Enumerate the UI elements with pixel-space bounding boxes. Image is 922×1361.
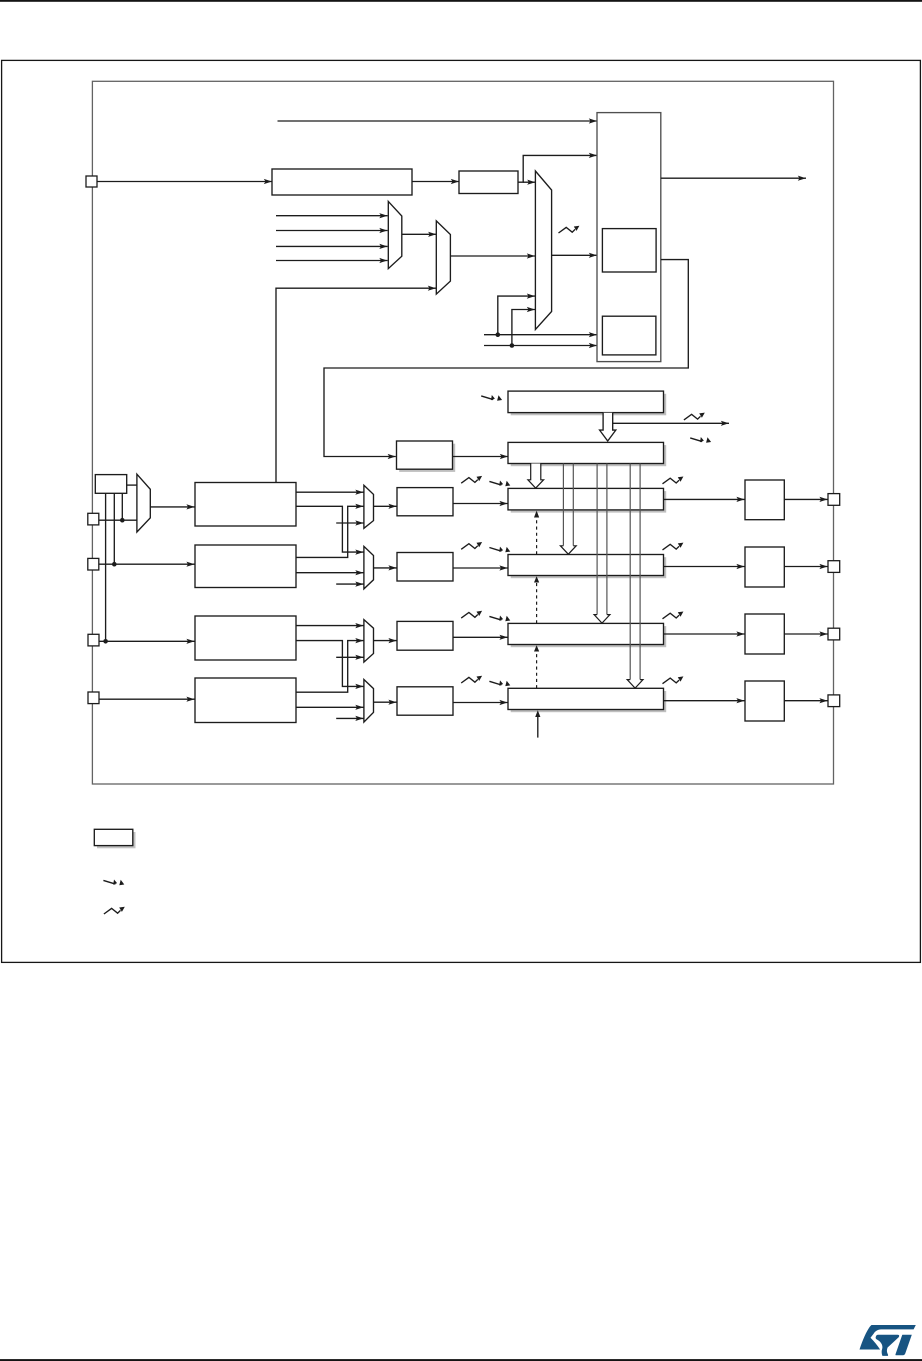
event symbol: update event UEV — [684, 413, 705, 420]
pin TIMx_CH2 output (right border) — [828, 561, 840, 573]
block ICPS2: input capture 2 prescaler — [397, 553, 453, 582]
wire TRGO output — [661, 177, 806, 179]
wire TRC to IC3 mux — [336, 656, 363, 658]
interrupt/DMA symbol: CC3 interrupt — [489, 616, 510, 622]
wire update event UEV — [613, 422, 729, 424]
wire TI2FP1 to IC1 mux — [296, 506, 364, 557]
mux MUX1 (ITR selection) — [388, 201, 402, 268]
wire ITR3 — [276, 260, 388, 262]
block IF2: input filter & edge detector 2 — [195, 545, 296, 588]
arrowhead into CCR3 bottom — [534, 645, 539, 651]
figure frame — [2, 60, 921, 962]
block CCR2 capture/compare register 2 shadow — [511, 557, 667, 578]
ST logo — [860, 1325, 916, 1356]
wire TRC to IC1 mux — [336, 522, 363, 524]
dashed wire CCR4 to CCR3 — [536, 651, 538, 688]
block OC3: output control 3 — [745, 614, 784, 654]
pin TIMx_CH4 — [88, 692, 99, 704]
wire ETRF to CCR4 bottom — [537, 717, 539, 738]
wire TRC to IC4 mux — [336, 717, 363, 719]
wire IC1 mux to prescaler 1 — [374, 505, 397, 507]
block: slave mode controller (inner lower) — [602, 316, 656, 355]
block IF3: input filter & edge detector 3 — [195, 616, 296, 660]
page top rule — [0, 0, 922, 2]
block ARR auto-reload register shadow — [511, 394, 667, 416]
wire TIMx_CH2 to input filter 2 — [99, 563, 195, 565]
pin TIMx_CH1 — [88, 513, 99, 525]
block CCR1 capture/compare register 1 — [508, 488, 664, 510]
legend box shadow — [97, 832, 136, 848]
wire TI3FP4 to IC4 mux — [296, 641, 364, 687]
wire OC1 to TIMx_CH1 pin — [784, 498, 827, 500]
junction CH3/XOR — [103, 639, 108, 644]
block IF4: input filter & edge detector 4 — [195, 678, 296, 723]
wire IC1PS to CCR1 — [453, 503, 508, 505]
block CNT counter — [508, 442, 664, 463]
mux MUX2 (TRGI selection) — [436, 221, 450, 294]
wire TI1FP1 — [484, 334, 597, 336]
event symbol: OC3REF event — [663, 612, 684, 619]
wire TI4FP3 to IC3 mux — [296, 641, 364, 693]
block: encoder interface (inner upper) — [602, 229, 656, 272]
wire ETRF to trigger controller — [518, 155, 597, 182]
wire IC2PS to CCR2 — [453, 567, 508, 569]
block CCR4 capture/compare register 4 — [508, 688, 664, 709]
event symbol: CC2I event — [461, 542, 482, 549]
junction CH2/XOR — [112, 562, 117, 567]
dashed wire CCR3 to CCR2 — [536, 582, 538, 623]
event symbol: CC4I event — [461, 676, 482, 683]
wire ITR mux to TRGI mux — [402, 233, 437, 235]
event symbol: CC3I event — [461, 611, 482, 618]
block ICPS3: input capture 3 prescaler — [397, 621, 453, 650]
wire TI2FP2 branch to mux — [512, 310, 535, 346]
block IF1: input filter & edge detector 1 — [195, 483, 296, 527]
block PSC prescaler shadow — [399, 444, 455, 472]
hollow arrow ARR to CNT — [600, 413, 616, 441]
wire TRGI mux to slave mode mux — [450, 255, 535, 257]
junction TI1FP1 — [496, 332, 501, 337]
wire TI1FP2 to IC2 mux — [296, 506, 364, 552]
wire XOR input from CH3 line — [105, 493, 107, 641]
block PSC prescaler — [397, 441, 453, 469]
wire TI2FP2 to IC2 mux — [296, 572, 364, 574]
hollow arrow CNT to CCR4 head — [627, 680, 643, 689]
wire OC3 to TIMx_CH3 pin — [784, 633, 827, 635]
arrowhead into CCR4 bottom — [535, 710, 540, 717]
wire CCR4 to output control 4 — [664, 700, 745, 702]
arrowhead into CCR1 bottom — [534, 511, 539, 518]
block U1: trigger/slave mode controller (tall) — [597, 113, 661, 362]
wire TIMx_CH1 to TI1 mux — [99, 519, 137, 521]
block OC2: output control 2 — [745, 547, 784, 587]
block ARR auto-reload register — [508, 391, 664, 413]
block CCR2 capture/compare register 2 — [508, 555, 664, 576]
pin TIMx_CH3 — [88, 634, 99, 646]
wire TIMx_ETR to polarity block — [97, 181, 272, 183]
wire OC4 to TIMx_CH4 pin — [784, 700, 827, 702]
block CNT counter shadow — [511, 445, 667, 466]
wire CCR1 to output control 1 — [664, 498, 745, 500]
wire TI1F_ED to TRGI mux — [276, 288, 436, 482]
mux MUX7 (IC3) — [364, 620, 374, 663]
wire ITR0 — [276, 215, 388, 217]
event symbol: trigger event — [559, 226, 580, 233]
diagram boundary (timer periphery border) — [92, 81, 833, 784]
wire CCR3 to output control 3 — [664, 633, 745, 635]
wire ITR1 — [276, 230, 388, 232]
wire TIMx_CH4 to input filter 4 — [99, 698, 195, 700]
mux MUX6 (IC2) — [364, 546, 374, 589]
block OC1: output control 1 — [745, 480, 784, 520]
hollow arrow CNT to CCR3 head — [594, 615, 610, 624]
wire internal clock CK_INT — [278, 120, 598, 122]
wire slave mux to trigger controller — [552, 254, 597, 256]
interrupt/DMA symbol: CC4 interrupt — [489, 680, 510, 686]
wire XOR input from CH2 line — [113, 493, 115, 564]
legend event symbol — [104, 907, 125, 914]
block XOR (TI1 selection) — [95, 475, 126, 494]
block OC4: output control 4 — [745, 681, 784, 721]
block CCR4 capture/compare register 4 shadow — [511, 691, 667, 712]
hollow arrow CNT to CCR4 shaft — [630, 464, 640, 680]
wire IC4PS to CCR4 — [453, 702, 508, 704]
dashed wire CCR2 to CCR1 — [536, 517, 538, 555]
block CCR3 capture/compare register 3 shadow — [511, 626, 667, 647]
block ICPS1: input capture 1 prescaler — [397, 488, 453, 516]
pin TIMx_CH1 output (right border) — [828, 494, 840, 506]
wire TI2FP2 — [484, 345, 597, 347]
wire CCR2 to output control 2 — [664, 566, 745, 568]
interrupt/DMA symbol: CC1 interrupt — [489, 481, 510, 487]
mux MUX4 (TI1 selection) — [137, 474, 150, 532]
hollow arrow CNT to CCR2 head — [560, 546, 576, 554]
wire TI1FP1 to IC1 mux — [296, 491, 364, 493]
wire reset/update feedback to prescaler — [324, 260, 688, 457]
wire ETRF to trigger mux — [523, 181, 535, 183]
page bottom rule — [0, 1359, 922, 1361]
event symbol: CC1I event — [461, 476, 482, 483]
wire TI1 mux to input filter 1 — [150, 506, 194, 508]
hollow arrow CNT to CCR1 — [528, 464, 544, 489]
event symbol: OC2REF event — [663, 543, 684, 550]
hollow arrow CNT to CCR2 shaft — [563, 464, 573, 546]
wire TIMx_CH3 to input filter 3 — [99, 640, 195, 642]
block CCR3 capture/compare register 3 — [508, 623, 664, 644]
event symbol: OC1REF event — [663, 477, 684, 484]
wire IC4 mux to prescaler 4 — [374, 701, 397, 703]
arrowhead into CCR2 bottom — [534, 576, 539, 582]
wire IC3 mux to prescaler 3 — [374, 640, 397, 642]
pin TIMx_CH2 — [88, 558, 99, 570]
pin TIMx_ETR (left border) — [86, 176, 97, 187]
junction CH1/XOR — [120, 518, 125, 523]
wire TI3FP3 to IC3 mux — [296, 625, 364, 627]
block: external clock mode 2 — [459, 171, 518, 194]
mux MUX3 (slave mode controller input) — [535, 171, 551, 330]
pin TIMx_CH4 output (right border) — [828, 695, 840, 707]
pin TIMx_CH3 output (right border) — [828, 628, 840, 640]
wire TI1FP1 branch to mux — [498, 296, 535, 335]
wire XOR input from CH1 line — [121, 493, 123, 520]
legend box: register — [94, 829, 133, 845]
wire PSC to counter — [453, 456, 509, 458]
wire OC2 to TIMx_CH2 pin — [784, 566, 827, 568]
interrupt/DMA symbol: auto-reload — [481, 395, 502, 401]
wire IC2 mux to prescaler 2 — [374, 567, 397, 569]
mux MUX8 (IC4) — [364, 680, 374, 723]
wire TRC to IC2 mux — [336, 583, 363, 585]
interrupt/DMA symbol: CC2 interrupt — [489, 547, 510, 553]
hollow arrow CNT to CCR3 shaft — [597, 464, 607, 615]
wire polarity block to external clock mode block — [412, 181, 459, 183]
junction TI2FP2 — [510, 343, 515, 348]
block CCR1 capture/compare register 1 shadow — [511, 491, 667, 512]
wire ITR2 — [276, 245, 388, 247]
interrupt/DMA symbol: update interrupt — [690, 437, 711, 443]
legend interrupt/DMA symbol — [103, 880, 124, 886]
wire XOR output to TI1 mux — [127, 484, 137, 486]
wire TI4FP4 to IC4 mux — [296, 706, 364, 708]
block ICPS4: input capture 4 prescaler — [397, 687, 453, 715]
mux MUX5 (IC1) — [364, 485, 374, 528]
event symbol: OC4REF event — [663, 676, 684, 683]
block: ETR polarity selection & edge detector & prescaler — [272, 169, 412, 195]
wire IC3PS to CCR3 — [453, 636, 508, 638]
